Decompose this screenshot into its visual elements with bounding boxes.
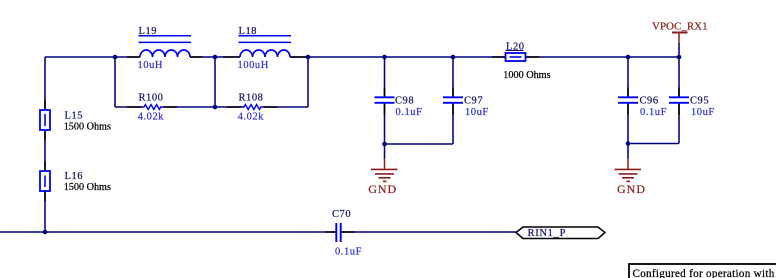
junction node A [113,55,118,60]
svg-text:L18: L18 [239,26,258,37]
svg-text:L15: L15 [65,111,84,122]
svg-text:1500 Ohms: 1500 Ohms [64,122,111,133]
junction GND1 node [382,142,387,147]
wire node B drop [214,57,216,107]
wire node C drop [307,57,309,107]
wire GND1 stem [384,144,386,159]
wire bottom rail [0,231,516,233]
capacitor C98 [375,88,423,119]
svg-text:1000 Ohms: 1000 Ohms [503,70,550,81]
svg-text:4.02k: 4.02k [238,112,265,123]
svg-text:RIN1_P: RIN1_P [528,228,567,239]
svg-text:10uH: 10uH [138,60,164,71]
junction C98 top [382,55,387,60]
svg-text:L16: L16 [65,171,84,182]
wire resistor row [115,106,308,108]
svg-text:Configured for operation with: Configured for operation with [633,268,775,278]
junction C96 top [626,55,631,60]
svg-text:100uH: 100uH [238,60,269,71]
capacitor C95 [669,88,715,119]
svg-text:C95: C95 [690,95,709,106]
svg-text:C96: C96 [640,95,659,106]
svg-text:1500 Ohms: 1500 Ohms [64,182,111,193]
ground GND2 [615,159,647,197]
wire C98 branch [384,57,386,144]
junction node B [213,55,218,60]
wire VPOC stem [678,43,680,57]
resistor R100 [127,93,177,123]
ferrite bead L16 [40,161,111,201]
svg-text:GND: GND [617,182,646,196]
svg-text:4.02k: 4.02k [138,112,165,123]
svg-text:GND: GND [368,182,397,196]
wire node A drop [114,57,116,107]
port RIN1_P [516,227,605,239]
wire C97 branch [452,57,454,144]
svg-text:10uF: 10uF [465,107,489,118]
capacitor C70 [325,209,362,258]
resistor R108 [227,93,277,123]
wire C96 branch [627,57,629,144]
capacitor C96 [618,88,667,119]
svg-text:0.1uF: 0.1uF [396,107,423,118]
capacitor C97 [443,88,489,119]
note box [629,264,776,278]
ferrite bead L20 [492,42,551,82]
svg-text:10uF: 10uF [691,107,715,118]
wire cap bottom join right [628,143,679,145]
svg-text:R100: R100 [139,93,164,104]
inductor L18 [223,26,307,71]
svg-text:0.1uF: 0.1uF [335,247,362,258]
svg-text:L20: L20 [506,42,525,53]
wire left vertical [44,57,46,232]
ground GND1 [368,159,397,197]
junction resistor mid [213,105,218,110]
junction VPOC node [677,55,682,60]
ferrite bead L15 [40,100,111,140]
svg-text:0.1uF: 0.1uF [640,107,667,118]
power port VPOC_RX1 [652,20,708,43]
svg-text:R108: R108 [239,93,264,104]
junction GND2 node [626,141,631,146]
svg-text:VPOC_RX1: VPOC_RX1 [652,20,708,32]
junction C97 top [451,55,456,60]
wire top rail [45,56,679,58]
wire C95 branch [678,57,680,144]
wire cap bottom join left [385,143,454,145]
svg-text:C70: C70 [332,209,351,220]
svg-text:C98: C98 [395,95,414,106]
wire GND2 stem [627,144,629,159]
svg-text:L19: L19 [139,26,158,37]
inductor L19 [127,26,203,71]
junction node C [306,55,311,60]
junction bottom left [43,230,48,235]
svg-text:C97: C97 [464,95,483,106]
